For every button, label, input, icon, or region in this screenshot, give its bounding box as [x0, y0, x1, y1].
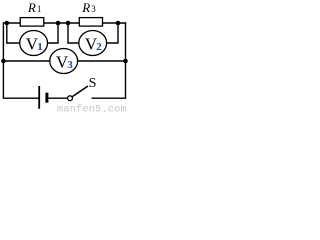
svg-text:1: 1	[37, 4, 42, 14]
node B2 junction dot (left of R3)	[66, 21, 71, 26]
wire R3 to top-right corner	[103, 22, 127, 24]
wire top-left: left corner to R1	[3, 22, 20, 24]
voltmeter V1	[20, 31, 48, 56]
svg-text:manfen5.com: manfen5.com	[57, 104, 127, 114]
wire right edge	[125, 22, 127, 98]
voltmeter V2	[79, 31, 107, 56]
wire left edge	[2, 22, 4, 98]
svg-text:1: 1	[37, 41, 43, 53]
resistor R3	[79, 18, 102, 27]
svg-text:3: 3	[91, 4, 96, 14]
battery long plate (positive)	[38, 86, 40, 109]
wire V1 left drop	[7, 23, 20, 43]
wire V3 left	[3, 60, 49, 62]
wire between R1 and R3	[44, 22, 80, 24]
switch lever	[72, 86, 88, 97]
wire V2 left drop	[68, 23, 79, 43]
junction dot right edge (V3 tap)	[123, 59, 128, 64]
node A junction dot (left of R1)	[5, 21, 10, 26]
switch pivot	[68, 96, 73, 101]
node C junction dot (right of R3)	[116, 21, 121, 26]
resistor R1	[20, 18, 44, 27]
junction dot left edge (V3 tap)	[1, 59, 6, 64]
svg-text:R: R	[81, 0, 90, 15]
wire battery to switch pivot	[48, 97, 67, 99]
wire V3 right	[78, 60, 126, 62]
voltmeter V3	[50, 49, 78, 74]
wire bottom-left: corner to battery	[3, 97, 38, 99]
wire V2 right rise	[107, 23, 118, 43]
svg-text:R: R	[27, 0, 36, 15]
svg-text:S: S	[89, 76, 97, 91]
battery short plate (negative)	[45, 93, 48, 103]
svg-text:3: 3	[67, 59, 73, 71]
wire V1 right rise	[48, 23, 59, 43]
node B1 junction dot (right of R1)	[56, 21, 61, 26]
wire switch to bottom-right corner	[92, 97, 127, 99]
svg-text:2: 2	[96, 41, 102, 53]
